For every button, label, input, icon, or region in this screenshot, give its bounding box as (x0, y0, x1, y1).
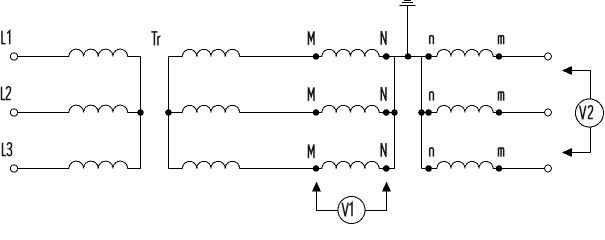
junction ground stub row1 (405, 53, 412, 60)
node M row3 (313, 165, 320, 172)
transformer Tr secondary winding M-N phase 2 (316, 112, 322, 114)
wire choke 2 to left bus (128, 112, 142, 114)
wire Tr bus to primary 3 (169, 168, 183, 170)
junction left bus (137, 109, 144, 116)
winding n-m phase 2 (429, 112, 437, 114)
wire V2 bottom arm (571, 127, 591, 153)
wire n-bus (421, 57, 423, 169)
label V1 (342, 203, 352, 217)
wire Tr primary bus (168, 57, 170, 169)
terminal L1 (10, 53, 17, 60)
winding n-m phase 3 (429, 168, 437, 170)
wire primary 1 to node M1 (240, 56, 317, 58)
wire N-bus (394, 57, 396, 169)
label M row1 (308, 31, 314, 45)
label L3 (3, 143, 12, 156)
arrow V1 left (312, 182, 321, 192)
node m row2 (496, 109, 503, 116)
winding n-m phase 1 (429, 56, 437, 58)
arrow V2 top (562, 66, 572, 75)
label m row2 (498, 92, 503, 101)
terminal L3 (10, 165, 17, 172)
wire n-bus to n2 (422, 112, 430, 114)
node n row2 (425, 109, 432, 116)
label N row3 (381, 143, 386, 157)
wire primary 2 to node M2 (240, 112, 317, 114)
node M row2 (313, 109, 320, 116)
node m row3 (496, 165, 503, 172)
node m row1 (496, 53, 503, 60)
transformer Tr secondary winding M-N phase 3 (316, 168, 322, 170)
wire n-bus to n3 (422, 168, 430, 170)
label n row2 (430, 92, 434, 101)
node N row2 (383, 109, 390, 116)
wire left bus (140, 57, 142, 169)
wire L1 to choke (18, 56, 70, 58)
transformer Tr primary winding phase 1 (183, 49, 240, 56)
node M row1 (313, 53, 320, 60)
arrow V2 bottom (562, 148, 572, 157)
transformer Tr primary winding phase 3 (183, 161, 240, 168)
ground (400, 1, 416, 57)
label N row1 (381, 31, 386, 45)
wire row3 N to N-bus (379, 168, 395, 170)
node n row3 (425, 165, 432, 172)
wire Tr bus to primary 2 (169, 112, 183, 114)
label V2 (580, 106, 593, 120)
transformer Tr primary winding phase 2 (183, 105, 240, 112)
wire row2 N to N-bus (379, 112, 395, 114)
wire Tr bus to primary 1 (169, 56, 183, 58)
terminal row2 right (545, 109, 552, 116)
label n row1 (430, 36, 434, 45)
wire L2 to choke (18, 112, 70, 114)
arrow V1 right (382, 182, 391, 192)
inductor choke phase 3 (69, 161, 128, 168)
terminal row1 right (545, 53, 552, 60)
label n row3 (430, 148, 434, 157)
label N row2 (381, 87, 386, 101)
label m row1 (498, 36, 503, 45)
terminal L2 (10, 109, 17, 116)
junction Tr primary bus (165, 109, 172, 116)
label L2 (2, 87, 11, 100)
wire primary 3 to node M3 (240, 168, 317, 170)
wire V1 left arm (317, 190, 339, 211)
node n row1 (425, 53, 432, 60)
wire choke 3 to left bus (128, 168, 142, 170)
node N row1 (383, 53, 390, 60)
voltmeter V1 (338, 197, 365, 224)
voltmeter V2 (576, 99, 604, 127)
wire V2 top arm (571, 71, 591, 100)
label Tr (151, 32, 160, 46)
wire row1 N to n (379, 56, 437, 58)
terminal row3 right (545, 165, 552, 172)
wire choke 1 to left bus (128, 56, 142, 58)
inductor choke phase 1 (69, 49, 128, 56)
junction n-bus row2 (418, 109, 425, 116)
label M row3 (308, 145, 314, 159)
wire L3 to choke (18, 168, 70, 170)
label m row3 (498, 148, 503, 157)
wire m1 to terminal (493, 56, 545, 58)
label L1 (2, 31, 10, 45)
transformer Tr secondary winding M-N phase 1 (316, 56, 322, 58)
wire V1 right arm (365, 190, 387, 211)
junction N-bus row2 (391, 109, 398, 116)
wire m2 to terminal (493, 112, 545, 114)
inductor choke phase 2 (69, 105, 128, 112)
wire m3 to terminal (493, 168, 545, 170)
label M row2 (308, 87, 314, 101)
node N row3 (383, 165, 390, 172)
